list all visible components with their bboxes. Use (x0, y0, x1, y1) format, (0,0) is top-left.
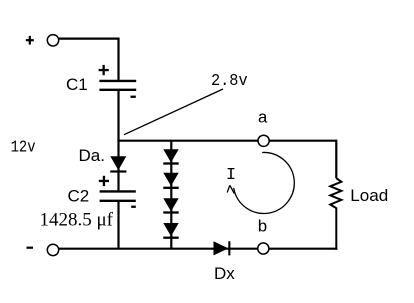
svg-text:Load: Load (350, 186, 388, 205)
svg-text:C1: C1 (66, 75, 88, 94)
svg-text:C2: C2 (68, 187, 90, 206)
svg-text:Da.: Da. (79, 146, 105, 165)
svg-text:12v: 12v (11, 138, 36, 157)
svg-text:I: I (226, 166, 236, 185)
svg-text:Dx: Dx (214, 264, 235, 283)
svg-text:1428.5 μf: 1428.5 μf (40, 209, 114, 230)
svg-text:2.8v: 2.8v (211, 72, 248, 91)
svg-text:a: a (258, 109, 268, 128)
svg-text:b: b (257, 219, 267, 238)
